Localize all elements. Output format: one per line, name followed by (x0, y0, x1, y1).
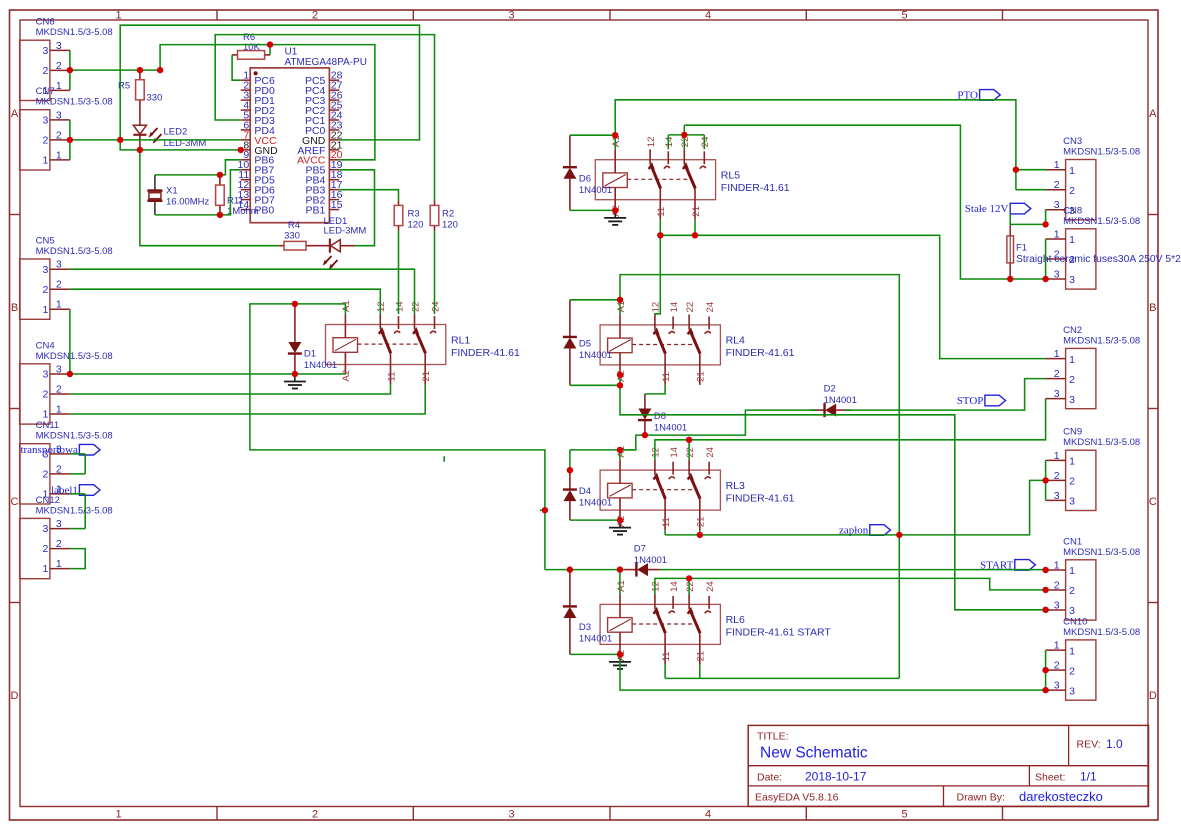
wire (619, 570, 621, 594)
svg-text:TITLE:: TITLE: (757, 731, 789, 743)
svg-text:CN12: CN12 (36, 495, 60, 506)
svg-text:MKDSN1.5/3-5.08: MKDSN1.5/3-5.08 (1063, 437, 1140, 448)
svg-text:1N4001: 1N4001 (579, 350, 612, 361)
svg-text:330: 330 (147, 93, 163, 104)
diode D3 1N4001 (563, 570, 612, 655)
svg-text:3: 3 (1069, 394, 1075, 406)
svg-text:21: 21 (696, 371, 707, 382)
ground (284, 374, 306, 389)
svg-text:D1: D1 (304, 349, 316, 360)
svg-text:D8: D8 (654, 411, 666, 422)
svg-text:3: 3 (56, 364, 62, 376)
fuse F1 (1007, 224, 1181, 279)
svg-text:2: 2 (1069, 185, 1075, 197)
net flag zaplon (839, 525, 890, 537)
wire (688, 578, 690, 594)
svg-text:1: 1 (43, 155, 49, 167)
wire (70, 493, 85, 495)
connector CN1 (1046, 536, 1141, 620)
wire (645, 410, 816, 435)
svg-text:2: 2 (312, 9, 318, 21)
wire (660, 569, 1046, 571)
crystal X1 16.00MHz (147, 175, 209, 215)
svg-text:MKDSN1.5/3-5.08: MKDSN1.5/3-5.08 (1063, 335, 1140, 346)
svg-text:CN3: CN3 (1063, 136, 1082, 147)
svg-text:24: 24 (705, 581, 716, 592)
wire (443, 456, 445, 462)
wire (1045, 239, 1047, 279)
junction (1042, 276, 1048, 282)
svg-text:2: 2 (43, 135, 49, 147)
svg-text:label1: label1 (51, 485, 78, 497)
svg-text:1: 1 (1054, 229, 1060, 241)
wire (398, 231, 400, 314)
svg-text:RL5: RL5 (721, 170, 740, 182)
svg-text:3: 3 (1054, 600, 1060, 612)
svg-text:R2: R2 (442, 209, 454, 220)
svg-text:2: 2 (1069, 476, 1075, 488)
svg-text:24: 24 (705, 302, 716, 313)
wire (269, 45, 271, 55)
svg-text:LED-3MM: LED-3MM (324, 226, 367, 237)
svg-text:21: 21 (696, 651, 707, 662)
connector CN7 (20, 86, 113, 170)
wire (215, 35, 434, 201)
wire (570, 209, 615, 211)
svg-text:3: 3 (508, 809, 514, 821)
wire (664, 664, 666, 678)
svg-text:LED2: LED2 (164, 127, 188, 138)
relay RL6 FINDER-41.61 START (600, 580, 831, 664)
connector CN12 (20, 495, 113, 579)
connector CN6 (20, 17, 113, 101)
relay RL1 FINDER-41.61 (326, 300, 521, 384)
wire (232, 55, 241, 80)
junction (67, 67, 73, 73)
wire (70, 139, 241, 141)
junction (612, 132, 618, 138)
wire (694, 220, 696, 236)
svg-text:1N4001: 1N4001 (579, 185, 612, 196)
svg-text:C: C (11, 496, 19, 508)
svg-text:2: 2 (43, 284, 49, 296)
svg-text:2: 2 (43, 389, 49, 401)
wire (69, 309, 71, 374)
svg-text:3: 3 (56, 259, 62, 271)
junction (657, 232, 663, 238)
svg-text:24: 24 (430, 301, 441, 312)
ground (609, 654, 631, 669)
svg-text:12: 12 (651, 581, 662, 592)
wire (70, 385, 425, 415)
svg-text:EasyEDA V5.8.16: EasyEDA V5.8.16 (755, 792, 839, 804)
svg-text:3: 3 (43, 45, 49, 57)
svg-text:12: 12 (376, 301, 387, 312)
svg-text:3: 3 (43, 523, 49, 535)
svg-text:FINDER-41.61: FINDER-41.61 (721, 182, 790, 194)
svg-text:5: 5 (901, 9, 907, 21)
svg-text:21: 21 (691, 206, 702, 217)
ground (609, 520, 631, 535)
svg-text:2: 2 (1054, 580, 1060, 592)
svg-text:R4: R4 (288, 220, 300, 231)
svg-text:R11: R11 (227, 196, 244, 207)
svg-text:2: 2 (56, 463, 62, 475)
svg-text:2: 2 (43, 469, 49, 481)
net flag START (980, 559, 1035, 571)
junction (157, 67, 163, 73)
svg-text:A1: A1 (616, 580, 627, 592)
svg-text:MKDSN1.5/3-5.08: MKDSN1.5/3-5.08 (36, 431, 113, 442)
svg-text:3: 3 (1054, 388, 1060, 400)
svg-text:CN9: CN9 (1063, 427, 1082, 438)
diode D1 1N4001 (288, 304, 337, 374)
svg-text:CN10: CN10 (1063, 616, 1087, 627)
svg-text:12: 12 (651, 447, 662, 458)
junction (137, 67, 143, 73)
junction (1007, 276, 1013, 282)
wire (620, 435, 645, 450)
junction (567, 467, 573, 473)
svg-text:2018-10-17: 2018-10-17 (805, 770, 867, 784)
diode D2 1N4001 (810, 384, 857, 418)
junction (617, 297, 623, 303)
junction (697, 532, 703, 538)
svg-text:MKDSN1.5/3-5.08: MKDSN1.5/3-5.08 (1063, 216, 1140, 227)
resistor R6 10K (232, 32, 270, 59)
svg-text:D4: D4 (579, 486, 591, 497)
junction (617, 447, 623, 453)
svg-text:2: 2 (1069, 374, 1075, 386)
svg-text:3: 3 (56, 40, 62, 52)
svg-text:3: 3 (508, 9, 514, 21)
wire (140, 150, 279, 246)
junction (238, 147, 244, 153)
wire (250, 304, 545, 570)
svg-text:RL3: RL3 (726, 480, 745, 492)
svg-text:1: 1 (1054, 159, 1060, 171)
svg-text:1: 1 (43, 304, 49, 316)
svg-text:330: 330 (284, 230, 300, 241)
wire (570, 519, 620, 521)
svg-text:120: 120 (442, 220, 458, 231)
wire (684, 125, 1045, 279)
svg-text:CN2: CN2 (1063, 325, 1082, 336)
wire (70, 385, 391, 395)
wire (660, 235, 1045, 358)
svg-text:3: 3 (43, 115, 49, 127)
wire (155, 170, 241, 215)
ground (604, 210, 626, 225)
svg-text:Stałe 12V: Stałe 12V (965, 203, 1009, 215)
svg-text:FINDER-41.61 START: FINDER-41.61 START (726, 627, 832, 639)
wire (545, 569, 625, 571)
svg-text:14: 14 (669, 302, 680, 313)
svg-text:A: A (1149, 108, 1157, 120)
resistor R11 1Mohm (216, 175, 259, 217)
svg-text:1/1: 1/1 (1080, 770, 1097, 784)
wire (570, 134, 615, 136)
net flag Stale 12V (965, 203, 1031, 215)
svg-text:MKDSN1.5/3-5.08: MKDSN1.5/3-5.08 (36, 246, 113, 257)
svg-text:12: 12 (646, 137, 657, 148)
net flag STOP (957, 395, 1006, 407)
wire (570, 653, 620, 655)
svg-text:1N4001: 1N4001 (304, 360, 337, 371)
svg-text:1: 1 (1054, 560, 1060, 572)
junction (67, 371, 73, 377)
net flag PTO (957, 89, 1000, 101)
svg-text:1: 1 (1069, 645, 1075, 657)
svg-text:2: 2 (312, 809, 318, 821)
svg-text:3: 3 (1054, 490, 1060, 502)
wire (665, 677, 899, 679)
svg-text:3: 3 (1054, 680, 1060, 692)
svg-text:5: 5 (901, 809, 907, 821)
svg-text:2: 2 (56, 279, 62, 291)
op-amp U1 ATMEGA48PA-PU (238, 47, 367, 223)
wire (569, 450, 571, 470)
junction (617, 566, 623, 572)
svg-text:CN8: CN8 (1063, 205, 1082, 216)
svg-text:Sheet:: Sheet: (1035, 772, 1065, 784)
junction (617, 517, 623, 523)
wire (70, 453, 85, 455)
junction (617, 372, 623, 378)
LED1 LED-3MM (323, 216, 367, 270)
junction (267, 41, 273, 47)
wire (703, 135, 705, 149)
svg-text:A: A (11, 108, 19, 120)
svg-text:11: 11 (656, 207, 667, 217)
LED2 LED-3MM (133, 105, 206, 151)
svg-text:4: 4 (705, 809, 711, 821)
svg-text:STOP: STOP (957, 395, 984, 407)
svg-text:22: 22 (685, 447, 696, 458)
wire (699, 530, 701, 535)
svg-text:1N4001: 1N4001 (824, 395, 857, 406)
wire (1009, 214, 1011, 225)
svg-text:1N4001: 1N4001 (654, 423, 687, 434)
svg-text:R3: R3 (408, 209, 420, 220)
svg-text:1: 1 (1069, 456, 1075, 468)
svg-text:1N4001: 1N4001 (579, 634, 612, 645)
wire (70, 269, 415, 314)
svg-text:MKDSN1.5/3-5.08: MKDSN1.5/3-5.08 (36, 505, 113, 516)
wire (70, 69, 160, 71)
diode D8 1N4001 (638, 394, 687, 435)
svg-text:transportowa: transportowa (20, 444, 78, 456)
junction (1042, 221, 1048, 227)
junction (1042, 567, 1048, 573)
svg-text:MKDSN1.5/3-5.08: MKDSN1.5/3-5.08 (36, 27, 113, 38)
svg-text:3: 3 (56, 518, 62, 530)
wire (70, 373, 346, 375)
svg-text:2: 2 (43, 543, 49, 555)
svg-text:3: 3 (1069, 685, 1075, 697)
svg-text:D3: D3 (579, 622, 591, 633)
junction (681, 132, 687, 138)
wire (339, 170, 374, 246)
svg-text:MKDSN1.5/3-5.08: MKDSN1.5/3-5.08 (1063, 147, 1140, 158)
svg-text:24: 24 (700, 137, 711, 148)
svg-text:3: 3 (56, 109, 62, 121)
svg-text:2: 2 (56, 384, 62, 396)
svg-text:A2: A2 (341, 370, 352, 382)
svg-text:2: 2 (1054, 470, 1060, 482)
svg-text:2: 2 (1054, 179, 1060, 191)
junction (117, 137, 123, 143)
svg-text:1N4001: 1N4001 (634, 555, 667, 566)
svg-text:16.00MHz: 16.00MHz (166, 197, 210, 208)
wire (570, 299, 620, 301)
connector CN8 (1046, 205, 1141, 289)
connector CN11 (20, 420, 113, 504)
junction (217, 172, 223, 178)
resistor R2 120 (430, 200, 458, 231)
svg-text:1: 1 (56, 404, 62, 416)
wire (699, 664, 701, 678)
wire (70, 289, 380, 314)
svg-text:CN4: CN4 (36, 340, 55, 351)
relay RL5 FINDER-41.61 (595, 136, 790, 220)
net flag label1 (51, 485, 100, 497)
wire (70, 528, 85, 530)
svg-text:FINDER-41.61: FINDER-41.61 (726, 347, 795, 359)
svg-text:3: 3 (1054, 199, 1060, 211)
connector CN4 (20, 340, 113, 424)
svg-text:2: 2 (56, 60, 62, 72)
svg-text:Date:: Date: (757, 772, 782, 784)
wire (339, 190, 398, 201)
svg-text:FINDER-41.61: FINDER-41.61 (451, 347, 520, 359)
wire (1010, 210, 1045, 225)
title block (748, 725, 1148, 806)
svg-text:CN5: CN5 (36, 236, 55, 247)
wire (570, 449, 636, 451)
wire (620, 654, 1046, 690)
svg-text:FINDER-41.61: FINDER-41.61 (726, 492, 795, 504)
wire (1016, 169, 1046, 171)
junction (567, 566, 573, 572)
connector CN2 (1046, 325, 1141, 409)
svg-text:PB1: PB1 (306, 204, 326, 216)
svg-text:MKDSN1.5/3-5.08: MKDSN1.5/3-5.08 (1063, 547, 1140, 558)
svg-text:3: 3 (1069, 605, 1075, 617)
junction (686, 437, 692, 443)
svg-text:2: 2 (43, 65, 49, 77)
diode D4 1N4001 (563, 470, 612, 520)
svg-text:1: 1 (1054, 348, 1060, 360)
wire (1045, 650, 1047, 690)
svg-text:2: 2 (1069, 665, 1075, 677)
svg-text:D7: D7 (634, 544, 646, 555)
svg-text:B: B (1149, 302, 1156, 314)
wire (155, 160, 241, 175)
wire (70, 549, 85, 569)
connector CN10 (1046, 616, 1141, 700)
svg-text:2: 2 (1054, 660, 1060, 672)
junction (612, 207, 618, 213)
junction (617, 651, 623, 657)
wire (120, 25, 419, 150)
svg-text:120: 120 (408, 220, 424, 231)
wire (69, 50, 71, 90)
junction (292, 371, 298, 377)
svg-text:1: 1 (56, 80, 62, 92)
junction (292, 301, 298, 307)
svg-text:New Schematic: New Schematic (760, 745, 868, 762)
svg-text:1: 1 (115, 809, 121, 821)
svg-text:2: 2 (1069, 585, 1075, 597)
svg-text:F1: F1 (1016, 243, 1027, 254)
junction (1042, 607, 1048, 613)
svg-text:3: 3 (1069, 496, 1075, 508)
svg-text:CN11: CN11 (36, 420, 60, 431)
wire (84, 494, 86, 529)
wire (160, 45, 375, 160)
svg-text:A1: A1 (341, 300, 352, 312)
svg-text:24: 24 (705, 447, 716, 458)
resistor R3 120 (394, 200, 423, 231)
svg-text:22: 22 (680, 137, 691, 148)
svg-text:14: 14 (394, 301, 405, 312)
junction (542, 507, 548, 513)
svg-text:14: 14 (664, 137, 675, 148)
svg-text:1N4001: 1N4001 (579, 498, 612, 509)
svg-text:14: 14 (669, 447, 680, 458)
svg-text:1: 1 (115, 9, 121, 21)
wire (570, 384, 620, 386)
svg-text:MKDSN1.5/3-5.08: MKDSN1.5/3-5.08 (36, 351, 113, 362)
junction (642, 432, 648, 438)
junction (217, 212, 223, 218)
svg-text:1: 1 (43, 563, 49, 575)
connector CN9 (1046, 427, 1141, 511)
svg-text:1: 1 (1069, 354, 1075, 366)
svg-text:1Mohm: 1Mohm (227, 206, 259, 217)
wire (645, 385, 665, 394)
resistor R5 330 (118, 70, 162, 105)
net flag transportowa (20, 444, 100, 456)
svg-text:D: D (11, 690, 19, 702)
diode D6 1N4001 (563, 135, 612, 210)
svg-text:CN7: CN7 (36, 86, 55, 97)
junction (686, 575, 692, 581)
svg-text:1: 1 (43, 409, 49, 421)
wire (655, 220, 660, 315)
junction (692, 232, 698, 238)
svg-text:RL4: RL4 (726, 335, 745, 347)
svg-text:2: 2 (56, 538, 62, 550)
wire (683, 125, 685, 149)
wire (1016, 189, 1046, 191)
svg-text:MKDSN1.5/3-5.08: MKDSN1.5/3-5.08 (36, 97, 113, 108)
svg-text:10K: 10K (243, 42, 261, 53)
svg-text:11: 11 (661, 517, 672, 527)
wire (664, 530, 666, 535)
svg-text:2: 2 (56, 129, 62, 141)
svg-text:1: 1 (1069, 165, 1075, 177)
svg-text:ATMEGA48PA-PU: ATMEGA48PA-PU (285, 57, 367, 68)
junction (1042, 667, 1048, 673)
junction (1042, 477, 1048, 483)
svg-text:D6: D6 (579, 174, 591, 185)
svg-text:Drawn By:: Drawn By: (957, 792, 1005, 804)
svg-text:MKDSN1.5/3-5.08: MKDSN1.5/3-5.08 (1063, 627, 1140, 638)
svg-text:11: 11 (661, 372, 672, 382)
relay RL4 FINDER-41.61 (600, 301, 795, 385)
